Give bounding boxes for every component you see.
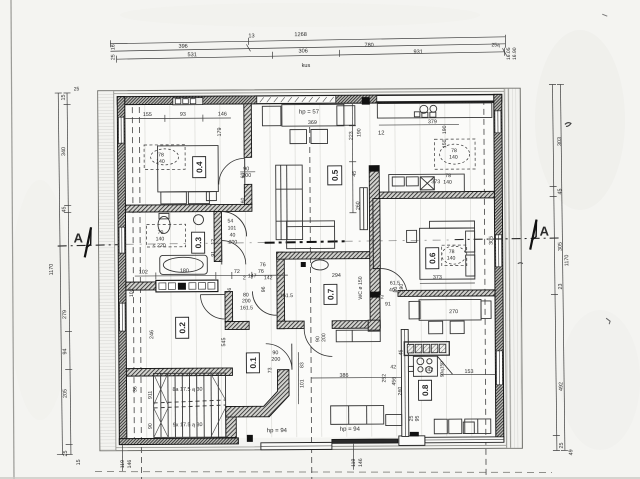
svg-text:WC ø 150: WC ø 150 <box>358 276 364 300</box>
svg-text:161.5: 161.5 <box>240 305 253 311</box>
svg-text:373: 373 <box>431 179 440 185</box>
svg-text:13: 13 <box>248 33 254 39</box>
window left wall r04 <box>118 117 124 143</box>
r03 shower dashed <box>147 224 186 247</box>
hall 01 door arc <box>266 344 292 370</box>
svg-text:102: 102 <box>129 288 135 297</box>
svg-text:83: 83 <box>299 362 305 368</box>
svg-text:60: 60 <box>240 198 246 204</box>
stairs <box>153 373 225 437</box>
svg-text:8a 17.5 ą 30: 8a 17.5 ą 30 <box>173 387 203 393</box>
eave outer outline <box>98 88 523 451</box>
r05 radiator central wall <box>360 188 368 230</box>
top dim line 2 <box>110 44 505 51</box>
svg-text:90: 90 <box>243 166 249 172</box>
wall kitchen/r06 <box>379 191 494 198</box>
right dim line inner <box>552 85 556 451</box>
window right wall r06 <box>496 235 502 267</box>
r06 dim <box>420 282 475 284</box>
outer wall right <box>494 94 504 442</box>
svg-text:23: 23 <box>558 283 564 289</box>
entry glazing band <box>261 442 332 449</box>
bath dim line <box>135 274 288 277</box>
stray marks <box>565 123 571 127</box>
right dim line outer <box>560 84 564 450</box>
svg-text:hp = 94: hp = 94 <box>267 428 288 434</box>
svg-text:16: 16 <box>110 44 116 50</box>
svg-text:153: 153 <box>464 369 473 375</box>
chimney block with 3 flues <box>173 98 203 105</box>
svg-text:146: 146 <box>358 458 364 467</box>
door 07 arc <box>304 328 332 356</box>
section line heavy center <box>265 241 346 242</box>
section arrow right <box>530 220 537 250</box>
svg-text:911: 911 <box>148 391 154 399</box>
svg-text:12: 12 <box>211 239 217 245</box>
wall bottom of 07 left piece <box>277 321 304 329</box>
svg-text:246: 246 <box>149 330 155 339</box>
section line right <box>455 238 562 240</box>
page bottom dashed line <box>95 472 552 473</box>
room label 0.2 <box>176 317 189 338</box>
entry pier <box>247 435 253 442</box>
eave band left <box>98 91 116 450</box>
svg-text:0.5: 0.5 <box>331 169 340 181</box>
svg-text:102: 102 <box>139 269 148 275</box>
svg-text:0.3: 0.3 <box>194 237 203 249</box>
r05 sofa bottom <box>287 221 335 249</box>
r03 toilet <box>158 216 170 233</box>
outer wall top <box>117 94 502 104</box>
svg-text:155: 155 <box>143 112 152 118</box>
svg-text:150: 150 <box>442 139 448 148</box>
interior white <box>125 102 496 438</box>
svg-text:0.4: 0.4 <box>195 161 204 173</box>
svg-text:200: 200 <box>242 173 251 179</box>
corridor door arcs <box>221 211 246 236</box>
svg-text:200: 200 <box>271 357 280 363</box>
dining sofa <box>331 406 384 425</box>
svg-text:0.7: 0.7 <box>326 288 335 300</box>
stair right wall <box>226 406 237 437</box>
svg-text:78: 78 <box>449 249 455 255</box>
central thick wall <box>369 166 380 329</box>
svg-text:45: 45 <box>398 350 404 356</box>
r03 sink <box>193 215 203 225</box>
svg-text:2: 2 <box>243 275 246 281</box>
wall right of r04 upper <box>244 104 252 158</box>
svg-text:78: 78 <box>451 148 457 154</box>
svg-text:340: 340 <box>61 147 67 156</box>
svg-text:147: 147 <box>248 273 257 279</box>
r05 table top <box>282 104 344 126</box>
r06 bed <box>420 228 475 279</box>
svg-text:40: 40 <box>230 232 236 238</box>
svg-text:306: 306 <box>298 49 307 55</box>
svg-text:73: 73 <box>267 367 273 373</box>
outer wall bottom <box>119 438 238 445</box>
window right wall r08 <box>496 351 502 385</box>
r06 skylight dashed <box>442 245 467 266</box>
svg-text:140: 140 <box>443 180 452 186</box>
svg-text:200: 200 <box>321 333 327 342</box>
svg-text:386: 386 <box>339 373 348 379</box>
svg-text:369: 369 <box>308 120 317 126</box>
left dim line inner <box>67 93 71 455</box>
eave inner outline <box>103 91 517 448</box>
svg-text:101: 101 <box>299 379 305 388</box>
wall right of r04 lower pier <box>244 184 252 204</box>
svg-text:146: 146 <box>127 460 133 469</box>
svg-text:90ą150: 90ą150 <box>439 361 445 377</box>
r08 stove sink <box>413 356 437 376</box>
r08 table 270 <box>419 299 481 320</box>
svg-text:270: 270 <box>449 309 458 315</box>
door r03 arc <box>222 240 246 264</box>
svg-text:95: 95 <box>415 415 421 421</box>
wc 07 sink <box>311 260 328 270</box>
svg-text:1170: 1170 <box>564 255 570 267</box>
corridor wall left of 07 <box>277 252 285 329</box>
r03 bathtub <box>160 255 208 274</box>
svg-text:9x 17.5 ą 30: 9x 17.5 ą 30 <box>173 422 203 428</box>
outer wall left <box>117 97 127 445</box>
svg-text:190: 190 <box>356 128 362 137</box>
svg-text:140: 140 <box>156 159 165 165</box>
svg-text:45: 45 <box>61 206 67 212</box>
svg-text:379: 379 <box>428 119 437 125</box>
pier top living/kitchen <box>362 97 370 105</box>
svg-text:25: 25 <box>110 54 116 60</box>
door r02 arc <box>200 295 225 320</box>
svg-text:205: 205 <box>63 389 69 398</box>
wall bottom of 07 right piece <box>332 321 380 329</box>
r08 dim <box>440 373 495 375</box>
roof ridge dashed center <box>310 127 312 479</box>
svg-text:190: 190 <box>442 125 448 134</box>
svg-text:90: 90 <box>148 423 154 429</box>
svg-text:90: 90 <box>272 350 278 356</box>
wall r08 left <box>401 329 409 436</box>
svg-text:373: 373 <box>433 275 442 281</box>
section line left <box>58 245 118 246</box>
svg-text:25: 25 <box>74 86 80 92</box>
svg-text:45: 45 <box>557 188 563 194</box>
svg-text:260: 260 <box>398 387 404 396</box>
svg-text:140: 140 <box>449 155 458 161</box>
svg-text:545: 545 <box>221 338 227 347</box>
r04 skylight dashed <box>144 145 185 170</box>
svg-text:70: 70 <box>158 230 164 236</box>
svg-text:78: 78 <box>158 152 164 158</box>
svg-text:305: 305 <box>558 242 564 251</box>
section arrow left <box>85 227 92 257</box>
svg-text:54: 54 <box>228 218 234 224</box>
room label 0.7 <box>324 284 337 304</box>
svg-text:16.90: 16.90 <box>512 47 518 60</box>
room label 0.1 <box>246 353 259 373</box>
svg-text:< 220: < 220 <box>153 243 166 249</box>
svg-text:180: 180 <box>180 268 189 274</box>
kitchen skylight dashed <box>435 139 476 169</box>
svg-text:279: 279 <box>62 310 68 319</box>
svg-text:101: 101 <box>228 225 237 231</box>
eave band right <box>504 89 522 448</box>
wall r02 right upper <box>225 291 233 321</box>
door r06 arc <box>380 268 407 295</box>
svg-text:A: A <box>74 230 84 245</box>
wall r02 jog horizontal <box>225 321 249 329</box>
window left wall r02 <box>120 303 126 331</box>
roof line dashed right <box>484 99 486 478</box>
door r04 arc <box>219 158 245 184</box>
svg-text:303: 303 <box>557 137 563 146</box>
roof line dashed left2 <box>139 107 141 479</box>
svg-text:456: 456 <box>391 377 397 386</box>
svg-text:25: 25 <box>559 442 565 448</box>
svg-text:93: 93 <box>180 112 186 118</box>
room label 0.6 <box>426 248 439 269</box>
room label 0.4 <box>193 157 206 178</box>
svg-text:A: A <box>540 224 550 239</box>
r04 interior dim <box>125 117 231 120</box>
svg-text:531: 531 <box>187 52 196 58</box>
svg-text:119: 119 <box>351 458 357 466</box>
dining dim <box>311 376 401 379</box>
svg-text:40: 40 <box>389 287 395 293</box>
svg-text:72: 72 <box>234 269 240 275</box>
wall corridor right piece <box>368 320 380 331</box>
svg-text:78: 78 <box>445 173 451 179</box>
svg-text:140: 140 <box>156 236 165 242</box>
svg-text:200: 200 <box>242 298 251 304</box>
wall top of 07 <box>277 252 374 260</box>
dining sideboard <box>336 330 380 342</box>
r08 wardrobe hatched row <box>404 342 449 356</box>
top dim line 3 <box>116 52 504 59</box>
kitchen counter top <box>377 103 492 118</box>
roof line dashed left <box>132 107 134 444</box>
window left wall r03 <box>119 227 125 253</box>
svg-text:252: 252 <box>381 374 387 383</box>
svg-text:179: 179 <box>217 128 223 137</box>
svg-text:146: 146 <box>218 112 227 118</box>
svg-text:305: 305 <box>489 236 495 245</box>
svg-text:91: 91 <box>211 251 217 257</box>
svg-text:294: 294 <box>332 273 341 279</box>
svg-text:94: 94 <box>62 348 68 354</box>
svg-text:396: 396 <box>178 44 187 50</box>
entry door leaf <box>399 436 425 446</box>
svg-text:25ą: 25ą <box>491 42 500 48</box>
svg-text:91: 91 <box>385 302 391 308</box>
svg-text:0.8: 0.8 <box>421 384 430 396</box>
svg-text:49: 49 <box>568 449 574 455</box>
svg-text:200: 200 <box>229 239 238 245</box>
kitchen lower counter <box>389 174 465 192</box>
svg-text:15: 15 <box>61 94 67 100</box>
svg-text:42: 42 <box>390 364 396 370</box>
wall r02 bottom <box>126 368 232 376</box>
svg-text:1268: 1268 <box>294 32 306 38</box>
wall r03 right <box>214 212 222 262</box>
svg-text:12: 12 <box>378 295 384 301</box>
svg-text:492: 492 <box>559 382 565 391</box>
svg-text:223: 223 <box>348 131 354 140</box>
wall r06 left <box>373 199 380 269</box>
svg-text:15: 15 <box>76 459 82 465</box>
wall r06/r08 divider <box>398 290 495 297</box>
svg-text:hp = 57: hp = 57 <box>299 109 320 115</box>
svg-text:142: 142 <box>424 367 433 373</box>
svg-text:96: 96 <box>261 286 267 292</box>
svg-text:260: 260 <box>355 201 361 210</box>
top dim line 1 <box>110 37 505 44</box>
r04 bed <box>158 146 219 192</box>
wall r03/r02 divider left part <box>126 282 156 290</box>
section line faint crossing <box>126 242 278 244</box>
svg-text:0.2: 0.2 <box>178 322 187 334</box>
svg-text:119: 119 <box>120 460 126 468</box>
left dim line outer <box>58 93 62 455</box>
dining small cab right <box>386 414 402 425</box>
svg-text:12: 12 <box>378 131 384 137</box>
r05 wardrobe <box>276 165 303 240</box>
svg-text:36: 36 <box>227 288 233 294</box>
svg-text:hp = 94: hp = 94 <box>340 427 361 433</box>
svg-text:36: 36 <box>133 386 139 392</box>
room label 0.8 <box>418 380 431 400</box>
svg-text:61.5: 61.5 <box>390 280 400 286</box>
top wall glazing kitchen <box>377 95 496 103</box>
svg-text:161.5: 161.5 <box>280 293 293 299</box>
svg-text:0.1: 0.1 <box>249 357 258 369</box>
top wall glazing living <box>257 96 336 104</box>
r08 washer row <box>434 419 447 434</box>
svg-text:76: 76 <box>258 269 264 275</box>
page left edge line <box>11 0 14 479</box>
svg-text:142: 142 <box>264 275 273 281</box>
room label 0.3 <box>192 232 205 253</box>
bottom extension lines <box>121 445 123 471</box>
svg-text:780: 780 <box>364 43 373 49</box>
r06 bed outline2 <box>430 221 475 228</box>
wall r04/r03 divider <box>125 204 252 212</box>
window right wall kitchen <box>495 111 501 133</box>
svg-text:0.6: 0.6 <box>428 252 437 264</box>
svg-text:76: 76 <box>260 262 266 268</box>
svg-text:kus: kus <box>302 63 311 69</box>
r04 radiator <box>206 192 216 201</box>
svg-text:25: 25 <box>63 450 69 456</box>
svg-text:45: 45 <box>352 171 358 177</box>
glass block band r03/r02 <box>156 280 218 292</box>
svg-text:1170: 1170 <box>49 264 55 276</box>
svg-text:931: 931 <box>413 49 422 55</box>
hall chamfer wall <box>225 370 289 417</box>
kitchen dim vert <box>351 104 354 213</box>
svg-text:140: 140 <box>447 256 456 262</box>
room label 0.5 <box>328 166 342 185</box>
